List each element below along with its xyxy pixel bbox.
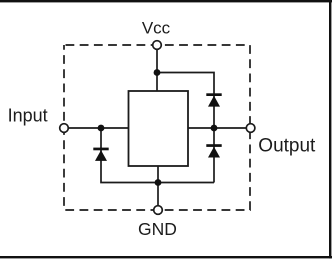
terminal GND pin — [154, 206, 163, 215]
svg-text:Input: Input — [8, 106, 48, 126]
diode D1 (output to Vcc clamp) — [206, 93, 221, 106]
svg-text:Vcc: Vcc — [142, 18, 171, 37]
wire: left clamp branch — [101, 128, 214, 183]
buffer device U1 — [129, 91, 189, 166]
terminal Input pin — [60, 124, 69, 133]
wire: right branch to ground rail — [213, 128, 215, 183]
terminal Output pin — [246, 124, 255, 133]
wire: input horizontal — [68, 127, 129, 129]
wire: Vcc rail to right branch — [157, 73, 214, 129]
wire: GND vertical drop — [157, 165, 159, 206]
svg-text:Output: Output — [258, 135, 316, 156]
junction: output node — [211, 125, 218, 132]
junction: input node — [98, 125, 105, 132]
dashed IC package boundary — [64, 45, 250, 210]
wire: output horizontal — [187, 127, 246, 129]
terminal Vcc pin — [153, 41, 162, 50]
svg-text:GND: GND — [138, 219, 177, 239]
frame bottom edge — [0, 256, 332, 258]
diode D2 (GND to output clamp) — [206, 144, 221, 157]
junction: GND node — [155, 179, 162, 186]
frame top edge — [0, 0, 332, 2]
diode D3 (GND to input clamp) — [93, 148, 108, 161]
junction: Vcc node — [154, 69, 161, 76]
wire: Vcc vertical drop — [156, 49, 158, 92]
frame right edge — [329, 0, 331, 258]
